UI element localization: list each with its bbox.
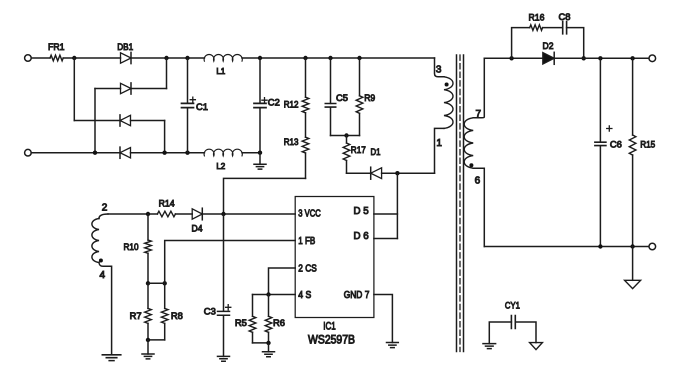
node R6 bottom — [266, 341, 270, 345]
svg-text:4 S: 4 S — [298, 290, 311, 301]
wire secondary bottom — [473, 168, 484, 246]
svg-text:C1: C1 — [196, 102, 208, 113]
ground triangle output — [625, 280, 641, 288]
svg-text:C6: C6 — [610, 140, 622, 151]
node B (166.5,58) — [164, 56, 168, 60]
wire pin D6 — [374, 238, 398, 240]
svg-text:D4: D4 — [192, 223, 203, 234]
resistor R6 — [268, 295, 270, 317]
terminal J1 (AC input top) — [25, 55, 32, 62]
wire R5-R6 bottom — [253, 342, 269, 344]
svg-text:3: 3 — [436, 64, 442, 75]
svg-text:1 FB: 1 FB — [298, 236, 315, 247]
bridge diode DB1-a — [121, 53, 132, 63]
wire row3 left — [74, 120, 120, 122]
svg-text:D 6: D 6 — [354, 231, 370, 242]
svg-text:R12: R12 — [284, 99, 299, 110]
wire R7-R8 bottom junction — [148, 339, 165, 341]
wire output top rail left — [484, 57, 543, 59]
node R17 top — [344, 133, 348, 137]
wire bridge left vertical x95 — [94, 89, 96, 153]
svg-text:IC1: IC1 — [323, 321, 336, 333]
resistor R10 — [147, 214, 149, 240]
wire aux bottom to ground — [99, 263, 112, 355]
resistor R13 — [302, 137, 309, 153]
inductor L1 — [204, 54, 242, 61]
svg-text:C8: C8 — [559, 12, 571, 23]
wire R17 to D1 — [347, 172, 371, 174]
resistor R5 — [252, 295, 254, 317]
svg-text:2 CS: 2 CS — [298, 263, 317, 274]
ground under aux winding — [102, 355, 121, 361]
node R15 top — [630, 56, 634, 60]
plus sign C6 — [607, 126, 612, 131]
plus sign C1 — [190, 97, 195, 102]
terminal J4 (output -) — [649, 243, 656, 250]
svg-text:D1: D1 — [371, 147, 381, 158]
node C2 top — [258, 56, 262, 60]
svg-text:7: 7 — [476, 109, 482, 120]
wire row3 right — [131, 120, 165, 122]
node R9 top — [357, 56, 361, 60]
wire bridge right vertical x164.6 (rows3-4) — [164, 121, 166, 153]
wire pin S — [253, 294, 296, 296]
node R15 bottom — [630, 244, 634, 248]
plus sign C2 — [262, 98, 267, 103]
svg-text:L2: L2 — [216, 162, 225, 171]
wire CY1 right — [515, 322, 536, 343]
wire R14 to D4 — [175, 213, 192, 215]
wire R16 to C8 — [543, 27, 563, 29]
resistor R8 — [164, 283, 166, 308]
capacitor C3 — [218, 311, 230, 315]
transformer T1 primary winding (pins 3-1) — [444, 77, 453, 129]
node R10 top — [146, 212, 150, 216]
fuse resistor FR1 — [50, 55, 63, 61]
wire to output ground — [632, 247, 634, 281]
wire node to D6 vertical — [396, 173, 398, 238]
phase dot primary — [445, 83, 449, 87]
bridge diode DB1-d — [120, 148, 131, 158]
wire output bottom rail — [484, 246, 649, 248]
ground under C3 — [218, 356, 230, 361]
wire aux to R14 — [108, 213, 157, 215]
wire row2 right — [131, 88, 167, 90]
svg-text:1: 1 — [436, 138, 442, 149]
terminal J3 (output +) — [649, 55, 656, 62]
wire L2 to C2 bottom — [242, 152, 260, 154]
node A (74,58) — [72, 56, 76, 60]
wire C8 to branch right vertical — [567, 28, 584, 59]
capacitor C1 — [187, 58, 189, 153]
svg-text:6: 6 — [475, 176, 481, 187]
diode D4 — [192, 209, 202, 219]
wire bottom rail mid — [131, 152, 205, 154]
node R16 branch left — [509, 56, 513, 60]
svg-text:C2: C2 — [268, 97, 280, 108]
wire CY1 left to ground — [489, 322, 511, 344]
wire D4 to IC pin3 — [203, 213, 296, 215]
wire C3 column — [223, 214, 225, 311]
inductor L2 — [204, 149, 242, 156]
svg-text:R8: R8 — [171, 311, 183, 322]
wire D1 to transformer pin1 — [382, 172, 435, 174]
node R7 bottom — [146, 338, 150, 342]
wire FR1 to node A — [63, 57, 120, 59]
svg-text:DB1: DB1 — [117, 42, 133, 53]
resistor R7 — [147, 283, 149, 308]
wire primary bottom to pin1 — [435, 128, 445, 173]
node VCC-C3 junction — [221, 212, 225, 216]
wire aux top into winding — [99, 214, 108, 219]
svg-text:D 5: D 5 — [354, 206, 370, 217]
resistor R14 — [157, 211, 175, 217]
wire pin CS — [269, 268, 296, 295]
svg-text:R9: R9 — [364, 93, 375, 104]
resistor R12 — [305, 58, 307, 97]
svg-text:L1: L1 — [216, 67, 225, 76]
svg-text:3 VCC: 3 VCC — [298, 209, 321, 220]
svg-text:R5: R5 — [235, 318, 247, 329]
diode D2 (filled) — [543, 53, 554, 65]
node D2 cathode branch — [582, 56, 586, 60]
wire FB line — [165, 241, 296, 284]
wire DB1-a to node B — [131, 57, 435, 59]
wire J1 to FR1 — [31, 57, 50, 59]
resistor R17 — [346, 136, 348, 144]
svg-text:R13: R13 — [284, 137, 299, 148]
node CS-S junction — [266, 292, 270, 296]
transformer core line left — [456, 55, 458, 352]
node R12 top — [303, 56, 307, 60]
svg-text:C5: C5 — [336, 93, 348, 104]
node R8 top — [163, 281, 167, 285]
svg-text:R17: R17 — [351, 145, 366, 156]
node C6 top — [598, 56, 602, 60]
wire R13 bottom to C3 column — [224, 178, 306, 214]
capacitor C8 — [563, 22, 567, 34]
node C1 bottom — [185, 151, 189, 155]
svg-text:R10: R10 — [124, 242, 139, 253]
wire pin GND — [374, 295, 393, 343]
capacitor CY1 — [511, 316, 515, 329]
node C5 top — [328, 56, 332, 60]
wire R10-R8 junction — [148, 282, 165, 284]
svg-text:GND 7: GND 7 — [344, 290, 370, 301]
svg-text:R7: R7 — [130, 311, 142, 322]
svg-text:WS2597B: WS2597B — [308, 334, 355, 346]
svg-text:R14: R14 — [159, 199, 175, 210]
wire row2 left — [95, 88, 121, 90]
ground triangle CY1 right — [530, 343, 543, 350]
wire bottom rail left — [31, 152, 120, 154]
node R10 bottom — [146, 281, 150, 285]
node D1-IC junction — [395, 171, 399, 175]
ground under C2 — [259, 153, 261, 165]
ground under R6 — [268, 343, 270, 352]
capacitor C2 — [259, 58, 261, 153]
capacitor C6 — [599, 58, 601, 246]
ground under R7 — [147, 340, 149, 354]
wire bridge left vertical x74 — [73, 58, 75, 121]
ground under IC GND — [387, 343, 399, 348]
resistor R16 — [530, 25, 543, 31]
svg-text:4: 4 — [100, 270, 106, 281]
transformer core dashed center — [459, 55, 461, 352]
phase dot secondary — [469, 163, 473, 167]
bridge diode DB1-b — [121, 83, 132, 93]
svg-text:R6: R6 — [273, 318, 285, 329]
resistor R9 — [359, 58, 361, 96]
terminal J2 (AC input bottom) — [25, 149, 32, 156]
wire output rail right — [554, 57, 649, 59]
wire secondary top to output rail — [473, 58, 484, 118]
wire top rail corner into primary — [435, 58, 445, 77]
wire R16 branch left vertical — [512, 28, 530, 59]
svg-text:CY1: CY1 — [505, 301, 520, 312]
bridge diode DB1-c — [120, 115, 131, 125]
transformer aux winding (pins 2-4) — [92, 219, 99, 263]
node bottom x164.6 — [162, 151, 166, 155]
capacitor C5 — [330, 58, 332, 136]
svg-text:2: 2 — [102, 203, 108, 214]
wire C5-R9 junction — [331, 135, 360, 137]
transformer T1 secondary winding (pins 7-6) — [464, 118, 473, 168]
svg-text:FR1: FR1 — [48, 42, 65, 53]
wire bridge right vertical x166 (rows1-2) — [166, 58, 168, 89]
transformer core line right — [463, 55, 465, 352]
node bottom x95 — [93, 151, 97, 155]
phase dot aux — [99, 259, 103, 263]
ground CY1 left — [483, 344, 496, 349]
diode D1 — [371, 168, 382, 179]
plus sign C3 — [226, 305, 231, 310]
svg-text:R15: R15 — [640, 140, 655, 151]
node C6 bottom — [598, 244, 602, 248]
node C1 top — [185, 56, 189, 60]
resistor R15 — [632, 58, 634, 135]
svg-text:D2: D2 — [543, 41, 554, 52]
wire pin D5 — [374, 213, 398, 215]
svg-text:R16: R16 — [529, 13, 545, 24]
svg-text:C3: C3 — [204, 306, 216, 317]
wire R12-R13 — [305, 113, 307, 137]
op-amp IC U1 box — [295, 197, 374, 318]
node C2 bottom — [258, 151, 262, 155]
